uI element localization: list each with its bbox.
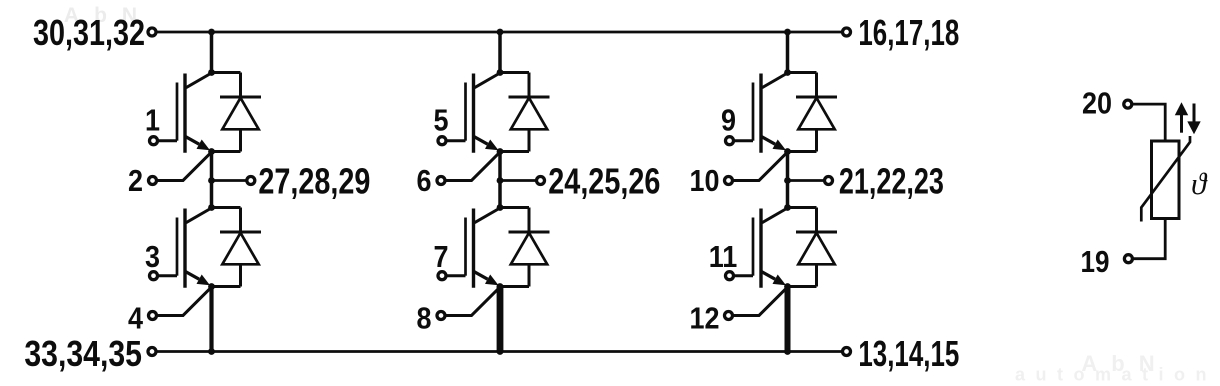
- terminal 33,34,35 (DC-): [148, 348, 156, 356]
- svg-text:4: 4: [128, 302, 143, 336]
- node emitter T1: [208, 148, 215, 155]
- svg-text:20: 20: [1082, 87, 1112, 121]
- junction collector node T5/D5: [784, 69, 791, 76]
- diode D1 (freewheeling): [220, 73, 261, 152]
- wire collector to diode D4 (top): [500, 206, 529, 209]
- svg-text:21,22,23: 21,22,23: [839, 160, 944, 201]
- thermistor R1 (NTC): [1141, 136, 1190, 222]
- svg-text:12: 12: [690, 302, 720, 336]
- wire collector to diode D2 (top): [212, 206, 241, 209]
- svg-text:19: 19: [1081, 245, 1110, 280]
- junction phase tap leg 2: [497, 177, 504, 184]
- terminal pin 9 (gate): [726, 137, 734, 145]
- svg-text:5: 5: [434, 104, 449, 138]
- wire gate lead pin 9: [735, 139, 753, 142]
- junction collector node T4/D4: [497, 204, 504, 211]
- wire diode D3 to emitter node (bottom): [500, 150, 529, 153]
- wire emitter T5 to collector T6: [786, 152, 790, 208]
- diode D4 (freewheeling): [509, 208, 550, 287]
- diode D2 (freewheeling): [220, 208, 261, 287]
- wire emitter T1 to collector T2: [210, 152, 214, 208]
- wire collector to diode D5 (top): [788, 71, 817, 74]
- node emitter T4: [497, 283, 504, 290]
- terminal pin 19: [1124, 255, 1132, 263]
- svg-text:6: 6: [417, 165, 432, 199]
- wire aux emitter lead pin 2: [158, 152, 212, 180]
- svg-text:2: 2: [128, 165, 143, 199]
- terminal pin 20: [1124, 100, 1132, 108]
- wire phase output lead 24,25,26: [500, 179, 536, 182]
- wire gate lead pin 5: [447, 139, 465, 142]
- wire aux emitter lead pin 6: [446, 152, 500, 180]
- terminal pin 6 (aux emitter): [437, 177, 445, 185]
- wire diode D2 to emitter node (bottom): [212, 285, 241, 288]
- terminal 16,17,18 (DC+): [843, 28, 851, 36]
- wire collector to diode D6 (top): [788, 206, 817, 209]
- svg-text:33,34,35: 33,34,35: [24, 334, 142, 374]
- svg-text:24,25,26: 24,25,26: [548, 160, 660, 201]
- terminal 21,22,23 (AC output): [825, 177, 833, 185]
- transistor T5 (IGBT): [753, 73, 788, 153]
- svg-text:7: 7: [434, 240, 449, 274]
- svg-text:10: 10: [690, 165, 720, 199]
- node emitter T2: [208, 283, 215, 290]
- terminal pin 11 (gate): [726, 272, 734, 280]
- svg-text:automation: automation: [1015, 365, 1217, 385]
- svg-text:ϑ: ϑ: [1191, 166, 1208, 201]
- terminal pin 3 (gate): [150, 272, 158, 280]
- junction DC- rail / leg 2: [497, 348, 504, 355]
- arrow up (temperature): [1175, 102, 1188, 132]
- junction collector node T3/D3: [497, 69, 504, 76]
- terminal pin 2 (aux emitter): [149, 177, 157, 185]
- wire diode D6 to emitter node (bottom): [788, 285, 817, 288]
- wire phase output lead 27,28,29: [212, 179, 247, 182]
- transistor T6 (IGBT): [753, 208, 788, 288]
- svg-text:16,17,18: 16,17,18: [858, 13, 959, 53]
- svg-text:8: 8: [417, 302, 432, 336]
- junction DC+ rail / leg 3: [784, 29, 791, 36]
- junction DC- rail / leg 3: [784, 348, 791, 355]
- svg-text:9: 9: [721, 104, 736, 138]
- wire gate lead pin 1: [159, 139, 177, 142]
- junction phase tap leg 3: [784, 177, 791, 184]
- wire emitter T3 to collector T4: [498, 152, 502, 208]
- transistor T4 (IGBT): [466, 208, 501, 288]
- junction DC+ rail / leg 1: [208, 29, 215, 36]
- terminal pin 1 (gate): [150, 137, 158, 145]
- junction DC+ rail / leg 2: [497, 29, 504, 36]
- junction collector node T1/D1: [208, 69, 215, 76]
- wire thermistor bottom lead: [1132, 219, 1165, 259]
- terminal pin 12 (aux emitter): [725, 312, 733, 320]
- transistor T1 (IGBT): [177, 73, 212, 153]
- diode D6 (freewheeling): [796, 208, 837, 287]
- terminal 13,14,15 (DC-): [843, 348, 851, 356]
- node emitter T3: [497, 148, 504, 155]
- wire DC+ bus (top rail): [156, 31, 843, 34]
- node emitter T5: [784, 148, 791, 155]
- terminal pin 4 (aux emitter): [149, 312, 157, 320]
- terminal pin 7 (gate): [438, 272, 446, 280]
- svg-text:11: 11: [709, 240, 738, 274]
- arrow down (resistance): [1187, 104, 1200, 135]
- wire emitter T2 to DC- rail (bold): [209, 286, 213, 352]
- wire collector to diode D1 (top): [212, 71, 241, 74]
- wire diode D4 to emitter node (bottom): [500, 285, 529, 288]
- wire aux emitter lead pin 4: [158, 287, 212, 315]
- wire DC- bus (bottom rail): [156, 350, 843, 353]
- wire gate lead pin 11: [735, 274, 753, 277]
- wire aux emitter lead pin 10: [734, 152, 788, 180]
- svg-text:3: 3: [145, 240, 160, 274]
- wire aux emitter lead pin 12: [734, 287, 788, 315]
- wire DC+ to collector T1: [210, 32, 214, 73]
- wire DC+ to collector T3: [498, 32, 502, 73]
- terminal 30,31,32 (DC+): [148, 28, 156, 36]
- transistor T2 (IGBT): [177, 208, 212, 288]
- svg-text:27,28,29: 27,28,29: [258, 160, 370, 201]
- wire collector to diode D3 (top): [500, 71, 529, 74]
- terminal pin 10 (aux emitter): [725, 177, 733, 185]
- junction phase tap leg 1: [208, 177, 215, 184]
- terminal pin 8 (aux emitter): [437, 312, 445, 320]
- wire DC+ to collector T5: [786, 32, 790, 73]
- wire emitter T4 to DC- rail (bold): [497, 286, 504, 352]
- wire emitter T6 to DC- rail (bold): [785, 286, 791, 352]
- wire diode D5 to emitter node (bottom): [788, 150, 817, 153]
- diode D5 (freewheeling): [796, 73, 837, 152]
- svg-text:13,14,15: 13,14,15: [858, 334, 959, 374]
- transistor T3 (IGBT): [466, 73, 501, 153]
- wire thermistor top lead: [1132, 104, 1165, 141]
- wire diode D1 to emitter node (bottom): [212, 150, 241, 153]
- svg-text:1: 1: [145, 104, 160, 138]
- junction collector node T2/D2: [208, 204, 215, 211]
- wire gate lead pin 7: [447, 274, 465, 277]
- junction DC- rail / leg 1: [208, 348, 215, 355]
- wire phase output lead 21,22,23: [788, 179, 825, 182]
- terminal 24,25,26 (AC output): [537, 177, 545, 185]
- junction collector node T6/D6: [784, 204, 791, 211]
- terminal 27,28,29 (AC output): [247, 177, 255, 185]
- wire gate lead pin 3: [159, 274, 177, 277]
- wire aux emitter lead pin 8: [446, 287, 500, 315]
- diode D3 (freewheeling): [509, 73, 550, 152]
- terminal pin 5 (gate): [438, 137, 446, 145]
- node emitter T6: [784, 283, 791, 290]
- svg-text:30,31,32: 30,31,32: [33, 12, 145, 53]
